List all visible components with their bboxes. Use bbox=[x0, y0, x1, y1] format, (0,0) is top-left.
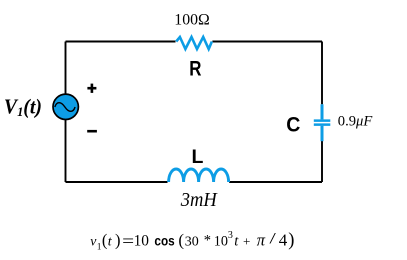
svg-text:=: = bbox=[122, 231, 134, 250]
svg-text:cos: cos bbox=[154, 234, 175, 249]
svg-text:4: 4 bbox=[279, 231, 288, 250]
svg-text:1: 1 bbox=[97, 241, 102, 251]
svg-text:R: R bbox=[189, 57, 202, 81]
svg-text:): ) bbox=[115, 231, 121, 250]
svg-text:L: L bbox=[192, 146, 204, 168]
svg-text:/: / bbox=[269, 230, 276, 247]
svg-text:): ) bbox=[288, 231, 294, 251]
svg-text:*: * bbox=[204, 233, 211, 249]
svg-text:10: 10 bbox=[134, 233, 150, 250]
svg-text:t: t bbox=[234, 234, 239, 250]
svg-text:+: + bbox=[243, 234, 250, 249]
svg-text:10: 10 bbox=[214, 234, 228, 250]
svg-text:V1(t): V1(t) bbox=[4, 96, 42, 119]
svg-text:0.9μF: 0.9μF bbox=[338, 114, 374, 130]
svg-text:3mH: 3mH bbox=[180, 189, 218, 211]
svg-text:(: ( bbox=[102, 231, 108, 250]
svg-text:30: 30 bbox=[185, 235, 199, 250]
svg-text:π: π bbox=[257, 231, 266, 250]
svg-text:(: ( bbox=[178, 231, 184, 250]
svg-text:100Ω: 100Ω bbox=[174, 12, 209, 29]
svg-text:t: t bbox=[108, 235, 113, 250]
svg-text:3: 3 bbox=[228, 230, 233, 241]
svg-text:C: C bbox=[286, 113, 300, 137]
